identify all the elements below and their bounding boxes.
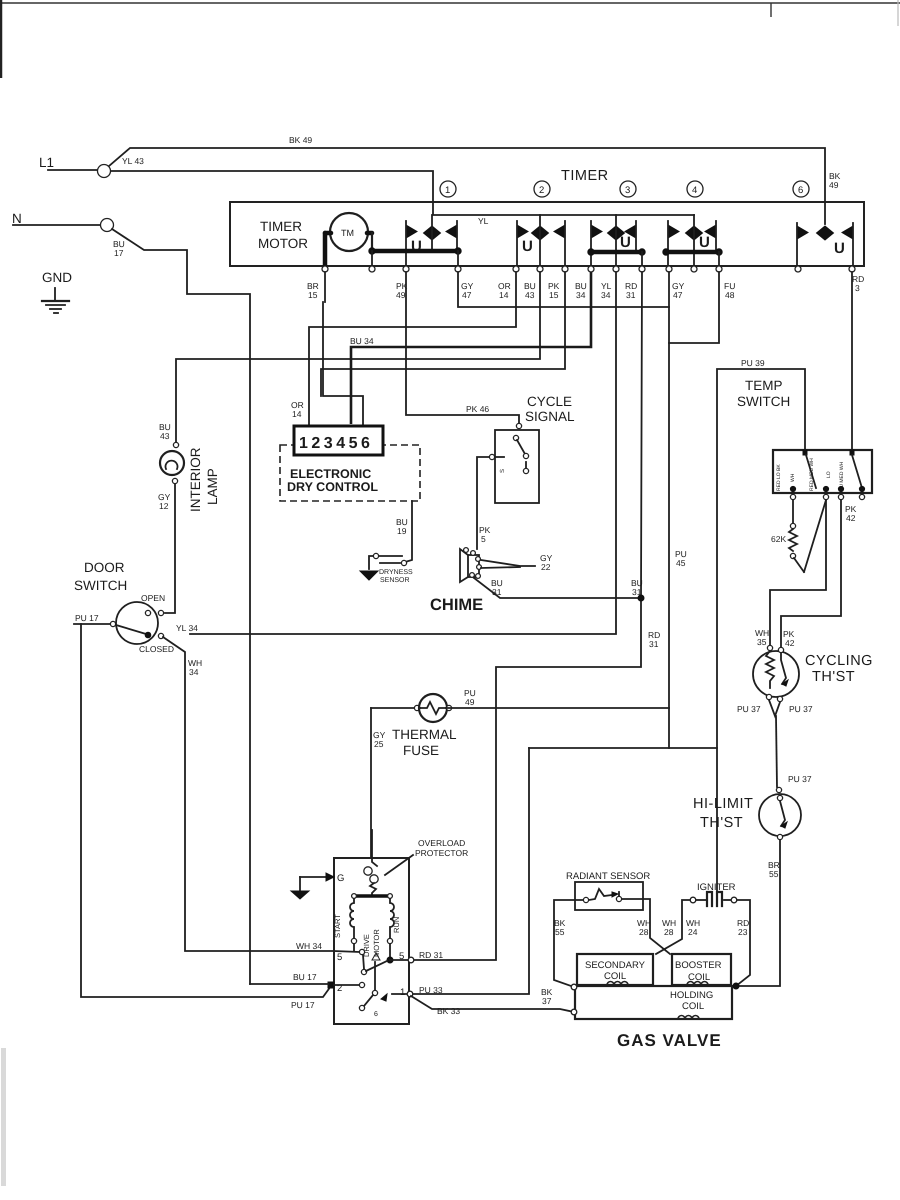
- wire BK 55 radiant sensor to secondary coil: [554, 900, 583, 987]
- svg-text:BK 49: BK 49: [289, 135, 312, 145]
- svg-text:6: 6: [374, 1011, 378, 1018]
- svg-text:DRYNESS: DRYNESS: [379, 569, 413, 576]
- svg-text:L1: L1: [39, 155, 54, 170]
- booster coil: [672, 954, 731, 985]
- svg-text:MOTOR: MOTOR: [258, 236, 308, 251]
- svg-text:47: 47: [462, 290, 472, 300]
- svg-text:DRY CONTROL: DRY CONTROL: [287, 480, 378, 494]
- svg-text:25: 25: [374, 739, 384, 749]
- svg-text:SIGNAL: SIGNAL: [525, 409, 575, 424]
- wire BK 49 from L1 to timer contact 6: [109, 135, 841, 202]
- dryness sensor: [373, 553, 413, 584]
- svg-text:FUSE: FUSE: [403, 743, 439, 758]
- svg-text:3: 3: [625, 185, 630, 196]
- wire WH 28 radiant sensor to booster coil: [622, 899, 670, 954]
- holding coil: [575, 986, 732, 1019]
- svg-text:TH'ST: TH'ST: [812, 669, 855, 685]
- temp switch: [737, 378, 872, 500]
- svg-text:RADIANT SENSOR: RADIANT SENSOR: [566, 871, 650, 882]
- wire YL 43 from L1 to timer: [111, 156, 433, 202]
- svg-text:37: 37: [542, 996, 552, 1006]
- drive motor box: [334, 838, 468, 1024]
- electronic dry control dashed box: [280, 445, 420, 501]
- svg-text:35: 35: [757, 637, 767, 647]
- svg-text:U: U: [834, 240, 845, 257]
- svg-text:OPEN: OPEN: [141, 593, 165, 603]
- svg-text:55: 55: [769, 869, 779, 879]
- svg-text:31: 31: [626, 290, 636, 300]
- svg-text:OVERLOAD: OVERLOAD: [418, 838, 465, 848]
- svg-text:22: 22: [541, 562, 551, 572]
- svg-text:U: U: [699, 234, 710, 251]
- svg-text:THERMAL: THERMAL: [392, 727, 457, 742]
- motor start switch: [359, 955, 410, 1018]
- svg-text:SWITCH: SWITCH: [737, 394, 790, 409]
- wire BU 31 chime to RD31 junction: [474, 578, 644, 601]
- svg-text:INTERIOR: INTERIOR: [188, 447, 203, 512]
- timer contact number 6: [793, 181, 809, 197]
- cycling thermostat: [737, 645, 873, 716]
- svg-text:DOOR: DOOR: [84, 560, 125, 575]
- wire GY 25 fuse to motor overload: [371, 708, 386, 858]
- svg-text:49: 49: [465, 697, 475, 707]
- svg-text:42: 42: [846, 513, 856, 523]
- timer cam contact 6: [797, 202, 853, 266]
- node N: [12, 211, 114, 232]
- svg-text:YL 34: YL 34: [176, 623, 198, 633]
- svg-text:49: 49: [829, 180, 839, 190]
- hi-limit thermostat: [693, 787, 801, 839]
- wire BU 34 to connector pin 4: [351, 272, 591, 424]
- svg-text:34: 34: [576, 290, 586, 300]
- timer terminal row circles: [322, 266, 855, 272]
- svg-text:31: 31: [492, 587, 502, 597]
- svg-text:12: 12: [159, 501, 169, 511]
- svg-text:SECONDARY: SECONDARY: [585, 960, 646, 971]
- wire GY 47 contact1 to contact4 link: [458, 272, 669, 307]
- svg-text:4: 4: [692, 185, 697, 196]
- wire PK 42 temp switch to cycling thermostat: [781, 500, 857, 648]
- svg-text:28: 28: [664, 927, 674, 937]
- svg-text:YL: YL: [478, 216, 489, 226]
- svg-text:14: 14: [499, 290, 509, 300]
- svg-text:S: S: [499, 469, 506, 473]
- svg-text:5: 5: [399, 951, 404, 962]
- start winding: [333, 899, 357, 951]
- wire BU 43 to interior lamp: [176, 272, 540, 442]
- timer contact number 4: [687, 181, 703, 197]
- svg-text:RD 31: RD 31: [419, 950, 443, 960]
- svg-text:48: 48: [725, 290, 735, 300]
- svg-text:BU 17: BU 17: [293, 972, 317, 982]
- drive motor label: [362, 929, 381, 960]
- wire PK 5 cycle signal to chime: [477, 457, 491, 549]
- igniter: [690, 882, 737, 906]
- wire RD 23 igniter to booster coil: [736, 900, 750, 986]
- motor terminal 1 PU 33: [400, 985, 443, 998]
- svg-text:TH'ST: TH'ST: [700, 815, 743, 831]
- svg-text:YL 43: YL 43: [122, 156, 144, 166]
- wire OR 14 to connector pin 1: [309, 272, 516, 424]
- wire BU 19 dry control to dryness sensor: [396, 501, 412, 562]
- svg-text:123456: 123456: [299, 435, 373, 452]
- chime: [430, 548, 483, 614]
- svg-text:PROTECTOR: PROTECTOR: [415, 848, 468, 858]
- resistor 62K at temp switch: [771, 500, 826, 572]
- svg-text:BOOSTER: BOOSTER: [675, 960, 722, 971]
- svg-text:5: 5: [337, 952, 342, 963]
- wire GY 12 lamp to door switch open contact: [165, 484, 175, 613]
- svg-text:BK 33: BK 33: [437, 1006, 460, 1016]
- svg-text:49: 49: [396, 290, 406, 300]
- svg-text:34: 34: [189, 667, 199, 677]
- motor terminal 5 right RD 31: [399, 950, 443, 963]
- svg-text:43: 43: [525, 290, 535, 300]
- secondary coil: [577, 954, 653, 985]
- cycle signal box: [489, 394, 575, 503]
- svg-text:PU 17: PU 17: [75, 613, 99, 623]
- gas valve terminals: [541, 983, 739, 1015]
- svg-text:PU 39: PU 39: [741, 358, 765, 368]
- ground GND: [42, 270, 72, 313]
- svg-text:15: 15: [549, 290, 559, 300]
- wire RD 3 to temp switch: [851, 272, 853, 450]
- svg-text:WH: WH: [790, 473, 796, 482]
- node L1: [39, 155, 111, 178]
- svg-text:14: 14: [292, 409, 302, 419]
- timer contact number 2: [534, 181, 550, 197]
- svg-text:RED LO BK: RED LO BK: [776, 464, 782, 491]
- svg-text:CYCLING: CYCLING: [805, 653, 873, 669]
- svg-text:SWITCH: SWITCH: [74, 578, 127, 593]
- svg-text:1: 1: [400, 987, 405, 998]
- svg-text:SENSOR: SENSOR: [380, 577, 410, 584]
- svg-text:PK 46: PK 46: [466, 404, 489, 414]
- interior lamp: [158, 422, 220, 512]
- svg-text:31: 31: [632, 587, 642, 597]
- timer internal YL bus: [433, 202, 694, 226]
- svg-text:TIMER: TIMER: [561, 168, 609, 184]
- wire PU 37 cycling to hi-limit: [776, 716, 812, 787]
- svg-text:CHIME: CHIME: [430, 596, 483, 614]
- svg-text:PU 17: PU 17: [291, 1000, 315, 1010]
- connector 1 2 3 4 5 6 of dry control: [294, 426, 383, 455]
- svg-text:43: 43: [160, 431, 170, 441]
- svg-text:34: 34: [601, 290, 611, 300]
- svg-text:CYCLE: CYCLE: [527, 394, 572, 409]
- svg-text:PU 37: PU 37: [789, 704, 813, 714]
- wire PK 46 to cycle signal: [406, 272, 519, 423]
- svg-text:45: 45: [676, 558, 686, 568]
- timer contact number 1: [440, 181, 456, 197]
- svg-text:1: 1: [445, 185, 450, 196]
- wire GY 22 chime leads: [481, 553, 553, 572]
- svg-text:PU 37: PU 37: [737, 704, 761, 714]
- timer cam contact 4: [663, 215, 722, 266]
- svg-text:24: 24: [688, 927, 698, 937]
- svg-text:ELECTRONIC: ELECTRONIC: [290, 467, 371, 481]
- svg-text:23: 23: [738, 927, 748, 937]
- motor terminal 2: [250, 972, 365, 1010]
- wire BR 15 timer motor to connector: [324, 272, 326, 302]
- svg-text:PU 37: PU 37: [788, 774, 812, 784]
- wire WH 24 igniter to secondary coil: [656, 900, 700, 954]
- wire PU 17 door switch to motor terminal 2: [74, 623, 110, 625]
- svg-text:LAMP: LAMP: [205, 468, 220, 505]
- wire BU 17 from N to drive motor terminal 2: [112, 229, 250, 984]
- timer cam contact 2: [517, 215, 565, 266]
- wire BR 55 hi-limit to gas valve: [737, 840, 780, 986]
- wire PK 15 to connector: [321, 272, 565, 396]
- wire WH 34 door switch to motor terminal 5: [163, 637, 334, 951]
- svg-text:TM: TM: [341, 228, 354, 238]
- wire PU 45 riser to temp switch: [675, 358, 805, 891]
- motor windings bar: [352, 894, 393, 899]
- ground at dryness sensor: [360, 556, 378, 580]
- wire YL 34 to door switch: [190, 272, 616, 634]
- svg-text:62K: 62K: [771, 534, 786, 544]
- overload protector: [364, 830, 378, 896]
- igniter feed junction y748: [529, 747, 717, 749]
- svg-text:31: 31: [649, 639, 659, 649]
- svg-text:55: 55: [555, 927, 565, 937]
- svg-text:COIL: COIL: [604, 971, 626, 982]
- svg-text:2: 2: [539, 185, 544, 196]
- svg-text:19: 19: [397, 526, 407, 536]
- svg-text:42: 42: [785, 638, 795, 648]
- motor terminal G with ground: [291, 873, 344, 899]
- svg-text:U: U: [522, 238, 533, 255]
- svg-text:47: 47: [673, 290, 683, 300]
- svg-text:15: 15: [308, 290, 318, 300]
- svg-text:17: 17: [114, 248, 124, 258]
- wire GY 47 / igniter feed vertical: [668, 272, 670, 748]
- run winding: [387, 899, 401, 959]
- svg-text:5: 5: [481, 534, 486, 544]
- timer motor TM: [258, 213, 372, 266]
- svg-text:MOTOR: MOTOR: [372, 929, 381, 957]
- wire RD 31 to drive motor switch: [413, 272, 642, 960]
- door switch: [74, 560, 174, 654]
- wire BK 33 motor to holding coil: [411, 996, 574, 1016]
- svg-text:G: G: [337, 873, 344, 884]
- svg-text:CLOSED: CLOSED: [139, 644, 174, 654]
- svg-text:WH 34: WH 34: [296, 941, 322, 951]
- svg-text:HI-LIMIT: HI-LIMIT: [693, 796, 753, 812]
- svg-text:HOLDING: HOLDING: [670, 990, 713, 1001]
- svg-text:BU 34: BU 34: [350, 336, 374, 346]
- svg-text:U: U: [620, 234, 631, 251]
- radiant sensor: [566, 871, 650, 910]
- wire WH 35 temp switch to cycling thermostat: [755, 500, 826, 647]
- svg-text:N: N: [12, 211, 22, 226]
- timer wire labels row: [307, 274, 864, 300]
- svg-text:GND: GND: [42, 270, 72, 285]
- wire FU 48 to igniter feed: [669, 272, 719, 343]
- svg-text:GAS VALVE: GAS VALVE: [617, 1031, 722, 1050]
- timer cam contact 3: [588, 215, 645, 266]
- motor terminal 5: [296, 941, 365, 963]
- svg-text:LO: LO: [826, 471, 832, 478]
- svg-text:START: START: [333, 914, 342, 938]
- svg-text:TIMER: TIMER: [260, 219, 302, 234]
- thermal fuse: [371, 694, 669, 758]
- svg-text:6: 6: [798, 185, 803, 196]
- svg-text:COIL: COIL: [682, 1001, 704, 1012]
- wire PU 33 motor to gas valve igniter feed: [413, 748, 529, 994]
- timer box: [230, 202, 864, 266]
- svg-text:TEMP: TEMP: [745, 378, 783, 393]
- timer cam contact 1: [369, 215, 461, 266]
- timer contact number 3: [620, 181, 636, 197]
- svg-text:3: 3: [855, 283, 860, 293]
- svg-text:28: 28: [639, 927, 649, 937]
